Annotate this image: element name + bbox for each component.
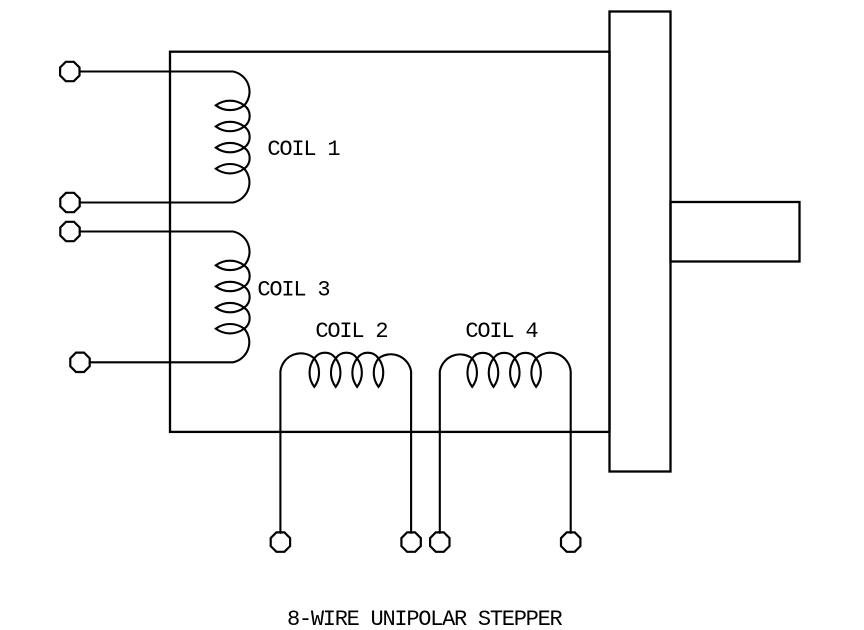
coil1 petal 1 [216,101,244,110]
coil2 petal 4 [374,358,383,387]
coil4 petal 2 [489,358,498,387]
coil1 petal 2 [216,122,244,131]
motor shaft rectangle [671,202,800,262]
coil3 petal 1 [216,261,244,270]
coil2 petal 1 [310,358,319,387]
svg-text:COIL 4: COIL 4 [465,319,538,344]
coil3 petal 3 [216,303,244,312]
svg-text:8-WIRE UNIPOLAR STEPPER: 8-WIRE UNIPOLAR STEPPER [287,607,563,630]
coil1 petal 3 [216,143,244,152]
coil2 petal 2 [331,358,340,387]
svg-text:COIL 3: COIL 3 [257,278,329,303]
terminal T1 coil1 lead a [60,62,79,81]
coil3 petal 2 [216,282,244,291]
inductor COIL2 winding with lead wires [280,353,411,533]
terminal T4 coil3 lead b [70,353,89,372]
coil1 petal 4 [216,164,244,173]
coil4 petal 4 [531,358,540,387]
terminal T3 coil3 lead a [60,222,79,241]
terminal T7 coil4 lead a [430,532,449,551]
svg-text:COIL 1: COIL 1 [267,137,340,162]
terminal T2 coil1 lead b [60,193,79,212]
inductor COIL3 winding with lead wires [80,232,250,363]
inductor COIL1 winding with lead wires [80,72,250,203]
coil4 petal 1 [467,358,476,387]
inductor COIL4 winding with lead wires [440,353,571,533]
svg-text:COIL 2: COIL 2 [315,319,387,344]
coil2 petal 3 [352,358,361,387]
coil4 petal 3 [510,358,519,387]
coil3 petal 4 [216,324,244,333]
terminal T5 coil2 lead a [271,532,290,551]
terminal T6 coil2 lead b [401,532,420,551]
motor body rectangle [170,52,610,432]
motor flange rectangle [610,12,671,472]
terminal T8 coil4 lead b [561,532,580,551]
